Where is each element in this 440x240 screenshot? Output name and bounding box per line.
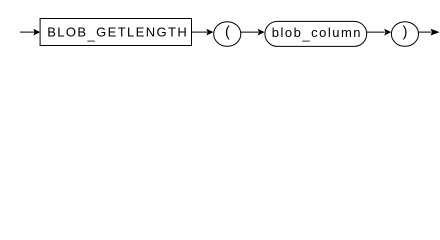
svg-text:): ) — [403, 25, 408, 41]
svg-text:BLOB_GETLENGTH: BLOB_GETLENGTH — [47, 25, 188, 42]
svg-text:(: ( — [225, 25, 230, 41]
svg-text:blob_column: blob_column — [272, 25, 362, 42]
